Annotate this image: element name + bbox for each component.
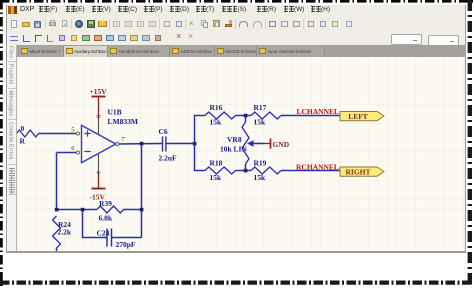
wire input to pin 5: [39, 133, 77, 135]
wire C24 branch left vertical: [83, 210, 108, 238]
wire vertical bus: [195, 116, 206, 171]
junction node bus/C6: [193, 142, 197, 146]
resistor R39: [97, 199, 124, 223]
port RIGHT: [340, 167, 384, 177]
junction node feedback right: [140, 208, 144, 212]
ground GND power port: [265, 138, 290, 149]
potentiometer VR8: [220, 116, 265, 171]
resistor R18: [205, 159, 236, 183]
wire op-amp output to C6: [119, 143, 162, 146]
left vertical panel strip: [7, 45, 17, 252]
wire C6 to bus: [166, 143, 195, 145]
document tab bar: [7, 45, 466, 57]
menu bar: [7, 5, 465, 17]
resistor R19: [251, 159, 281, 183]
junction node output: [140, 142, 144, 146]
wire R39 to right vertical: [124, 209, 142, 211]
wire R18 to VR8 bottom: [236, 170, 252, 172]
resistor R16: [205, 103, 236, 127]
pin 7 hotspot: [116, 142, 119, 145]
junction node C24 branch: [81, 208, 85, 212]
junction node feedback left: [55, 208, 59, 212]
resistor R17: [251, 103, 281, 127]
wire R19 to RIGHT port: [281, 170, 340, 172]
schematic area: [17, 57, 464, 252]
wire output junction down: [141, 144, 143, 238]
capacitor C24: [97, 229, 136, 250]
menu items (simulated CJK + latin): [38, 6, 57, 13]
toolbar row 1: [7, 16, 465, 30]
junction node VR8 bottom: [244, 169, 248, 173]
wire R17 to LEFT port: [281, 115, 340, 117]
port LEFT: [340, 112, 384, 122]
wire C24 to right vertical: [112, 237, 142, 239]
junction node VR8 top: [244, 114, 248, 118]
resistor R24: [53, 216, 72, 252]
op-amp U1B LM833M: [82, 108, 138, 163]
wire pin 6 vertical to feedback row: [56, 153, 58, 210]
capacitor C6: [159, 127, 178, 163]
power +15V: [90, 87, 108, 118]
pin 5 hotspot: [76, 132, 79, 135]
power -15V: [90, 174, 106, 202]
window bottom edge: [6, 251, 466, 254]
resistor R? (input, partially cut at left edge): [17, 124, 39, 146]
toolbar row 2: [7, 30, 465, 44]
DXP logo: [8, 6, 17, 14]
combo boxes right: [391, 34, 422, 45]
pin 8 (V+): [98, 116, 100, 135]
wire R16 to VR8 top: [236, 115, 252, 117]
wire pin 6 horizontal: [57, 152, 77, 154]
wire feedback row: [57, 209, 98, 211]
pin 6 hotspot: [76, 151, 79, 154]
pin 4 (V-): [98, 153, 100, 176]
